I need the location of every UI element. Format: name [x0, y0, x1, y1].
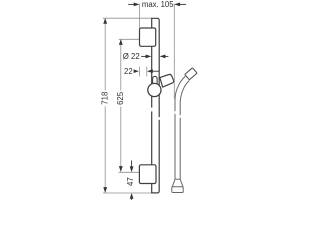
- dimension 22 (wall offset): [124, 67, 159, 77]
- hose nut (conical connector): [185, 68, 197, 80]
- hose right edge: [180, 80, 189, 179]
- wire: 718 top extension to bar top: [103, 17, 152, 19]
- svg-text:625: 625: [116, 91, 125, 105]
- svg-text:718: 718: [101, 92, 110, 105]
- wire: 625/47 top extension at bottom bracket center: [119, 171, 140, 173]
- svg-text:22: 22: [124, 67, 133, 76]
- bottom wall bracket: [139, 165, 156, 184]
- dimension Ø 22 (bar diameter): [123, 52, 169, 61]
- bar (wall rod): [152, 18, 160, 193]
- slider lever: [160, 74, 174, 87]
- wire: 718/47 bottom extension at bar bottom: [103, 192, 152, 194]
- svg-text:47: 47: [126, 177, 135, 186]
- wire: extension line hose edge (max.105 right): [173, 4, 175, 99]
- dimension 718 vertical line: [101, 18, 110, 193]
- hose end fitting: [172, 179, 183, 187]
- slider knob circle: [148, 83, 161, 96]
- dimension max. 105: [128, 0, 186, 9]
- wire: extension line wall plane (max.105 left): [138, 4, 140, 28]
- dimension 625 vertical line: [116, 39, 125, 172]
- bar break gap left: [151, 108, 153, 112]
- svg-text:max. 105: max. 105: [142, 0, 174, 9]
- top wall bracket: [140, 28, 156, 46]
- hose left edge: [175, 76, 185, 179]
- svg-text:Ø 22: Ø 22: [123, 52, 140, 61]
- dimension 47: [126, 161, 135, 201]
- wire: 625 top extension at top bracket center: [119, 38, 140, 40]
- slider pin: [153, 76, 158, 85]
- bar break gap right: [158, 117, 160, 120]
